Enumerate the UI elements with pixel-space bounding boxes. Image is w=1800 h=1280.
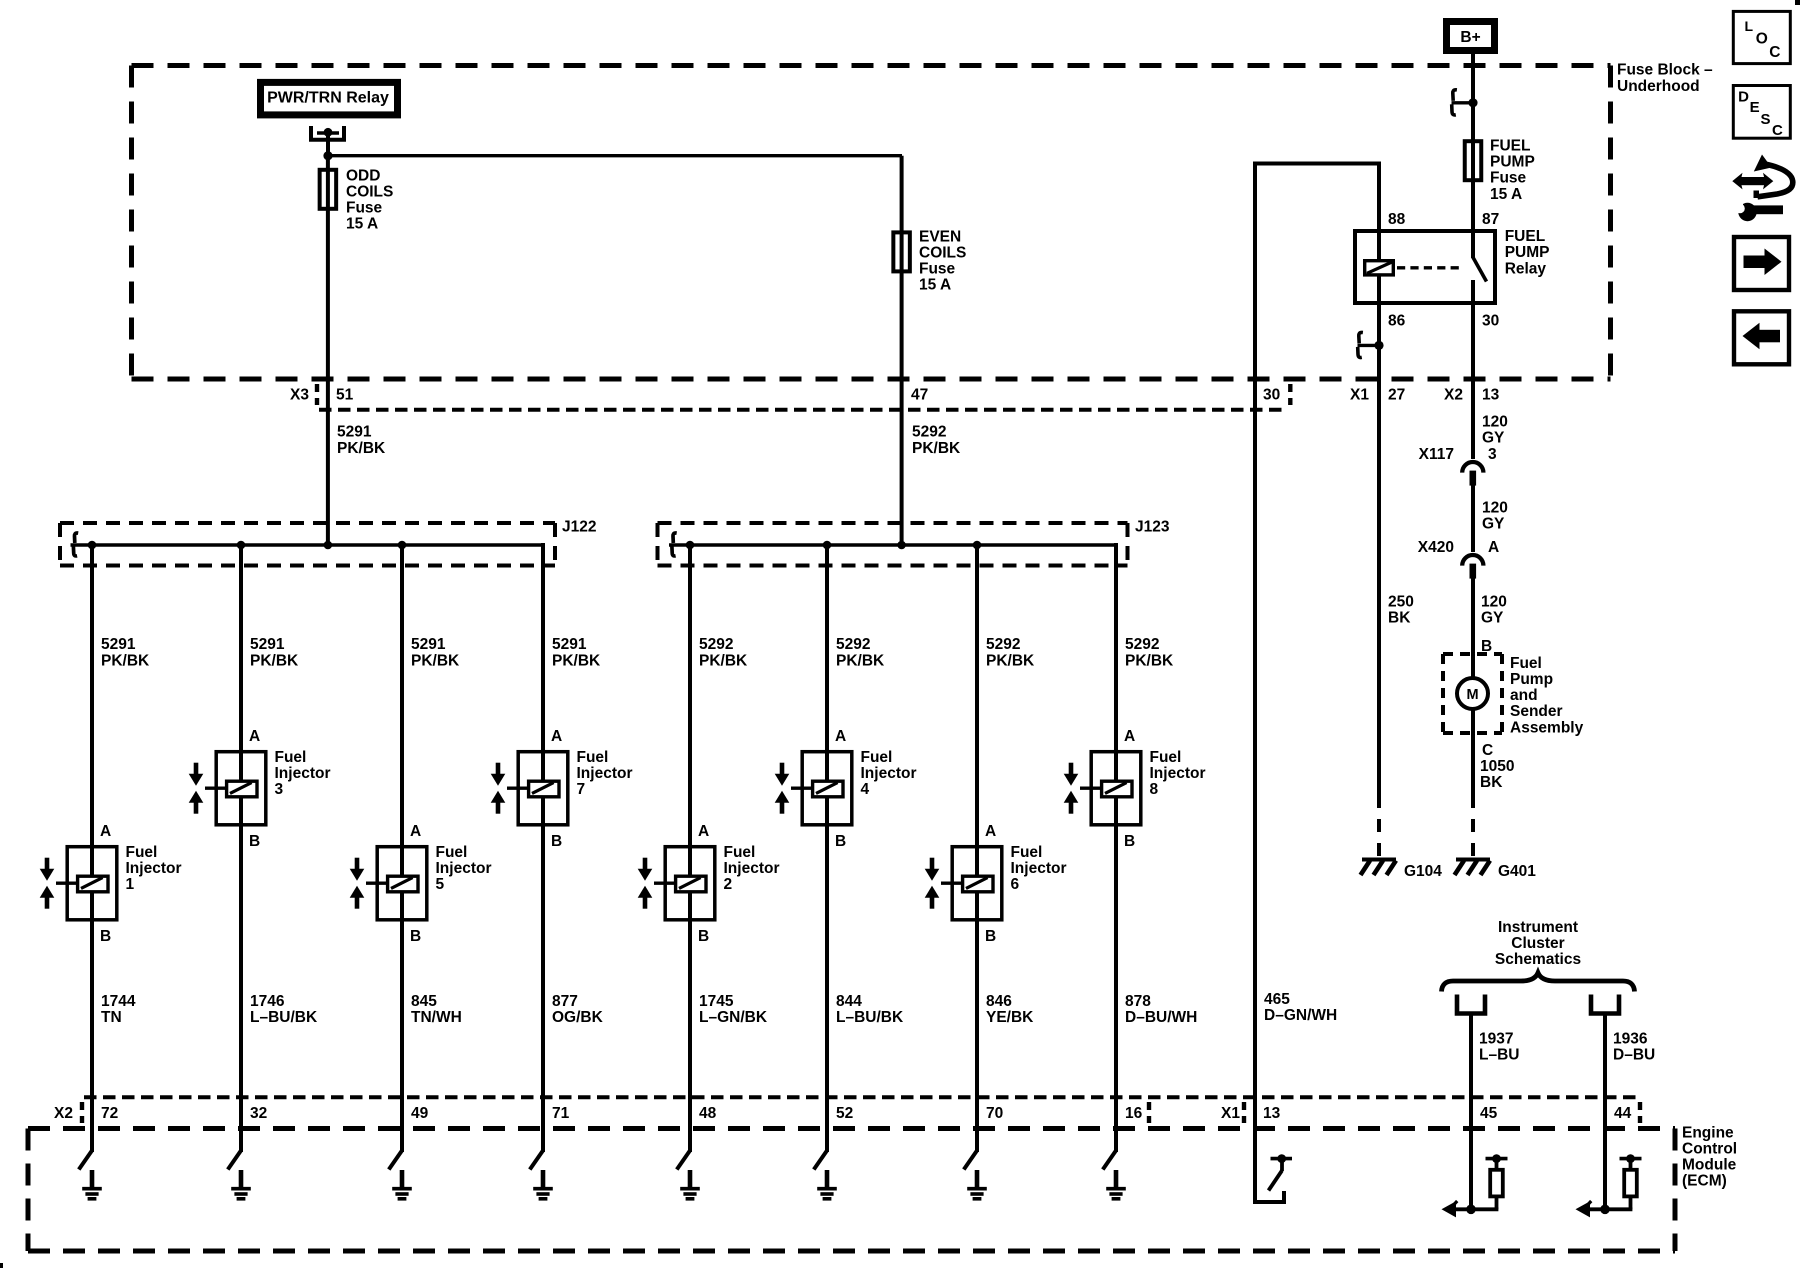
svg-text:X1: X1 [1221,1105,1240,1122]
svg-text:PK/BK: PK/BK [699,652,748,669]
EVEN COILS Fuse 15 A [893,228,966,293]
X2 tick [80,1102,84,1123]
svg-text:A: A [835,728,846,745]
svg-text:COILS: COILS [346,183,393,200]
ECM driver switch & ground pin 72 [79,1097,102,1199]
junction node [323,151,332,160]
svg-text:C: C [1769,44,1780,61]
svg-text:70: 70 [986,1105,1003,1122]
J123 junction dots [686,541,695,550]
svg-text:X3: X3 [290,386,309,403]
J122 bus end curl [73,533,78,556]
svg-text:A: A [698,823,709,840]
svg-text:B: B [1124,833,1135,850]
svg-text:5292: 5292 [986,636,1020,653]
svg-text:PUMP: PUMP [1505,244,1550,261]
svg-text:16: 16 [1125,1105,1143,1122]
svg-text:PK/BK: PK/BK [337,440,386,457]
svg-text:844: 844 [836,993,862,1010]
svg-text:Injector: Injector [126,860,182,877]
svg-text:D–GN/WH: D–GN/WH [1264,1007,1337,1024]
svg-text:B: B [698,928,709,945]
svg-text:5292: 5292 [912,424,946,441]
svg-text:A: A [1124,728,1135,745]
ECM driver switch & ground pin 48 [677,1097,700,1199]
wire 5291 PK/BK branch to injector 3 [239,543,243,1099]
svg-text:Fuel: Fuel [1150,749,1182,766]
svg-text:5292: 5292 [699,636,733,653]
svg-text:PK/BK: PK/BK [912,440,961,457]
wire 1936 D-BU [1603,1014,1607,1100]
fuel injector 2 [638,823,780,945]
inline connector X420 pin A [1462,555,1483,579]
svg-text:4: 4 [861,781,870,798]
ODD COILS Fuse 15 A [320,167,394,232]
inline connector X117 pin 3 [1462,462,1483,486]
svg-text:TN/WH: TN/WH [411,1009,462,1026]
svg-text:Pump: Pump [1510,671,1553,688]
wire 1937 L-BU [1469,1014,1473,1100]
svg-text:5291: 5291 [101,636,136,653]
svg-text:877: 877 [552,993,578,1010]
svg-text:X2: X2 [1444,386,1463,403]
FUEL PUMP Fuse 15 A [1465,138,1535,203]
wire 1050 BK to G401 [1471,733,1475,795]
icon LOC [1733,11,1790,63]
icon back arrow [1734,311,1789,364]
ground G104 [1361,860,1397,876]
svg-text:2: 2 [724,876,733,893]
svg-text:GY: GY [1482,516,1505,533]
svg-text:Injector: Injector [724,860,780,877]
wire 5292 PK/BK branch to injector 4 [825,543,829,1099]
svg-text:BK: BK [1480,774,1503,791]
tick after 30 [1288,384,1292,405]
svg-text:PK/BK: PK/BK [552,652,601,669]
svg-text:5291: 5291 [250,636,285,653]
fuel injector 8 [1064,728,1206,850]
svg-text:Fuel: Fuel [861,749,893,766]
fuel pump motor M [1457,678,1488,709]
svg-text:45: 45 [1480,1105,1498,1122]
svg-text:PUMP: PUMP [1490,154,1535,171]
svg-text:Fuel: Fuel [1011,844,1043,861]
battery positive B+ box [1447,22,1495,51]
wire: B+ to FUEL PUMP fuse [1471,54,1475,231]
svg-text:1744: 1744 [101,993,136,1010]
svg-text:Sender: Sender [1510,703,1563,720]
connector bracket under PWR/TRN Relay [311,126,344,140]
svg-text:D–BU: D–BU [1613,1047,1655,1064]
svg-text:ODD: ODD [346,167,380,184]
svg-text:L–BU: L–BU [1479,1047,1519,1064]
wire 5292 PK/BK branch to injector 8 [1114,543,1118,1099]
svg-text:Control: Control [1682,1141,1737,1158]
svg-text:Fuel: Fuel [126,844,158,861]
svg-text:Injector: Injector [861,765,917,782]
svg-text:L–BU/BK: L–BU/BK [250,1009,318,1026]
svg-text:465: 465 [1264,991,1290,1008]
svg-text:30: 30 [1263,386,1280,403]
svg-text:846: 846 [986,993,1012,1010]
svg-text:M: M [1466,687,1478,703]
svg-text:A: A [249,728,260,745]
svg-text:30: 30 [1482,313,1499,330]
svg-text:PK/BK: PK/BK [986,652,1035,669]
svg-text:Injector: Injector [1150,765,1206,782]
clip splice on B+ feed [1452,90,1478,115]
svg-text:1050: 1050 [1480,758,1514,775]
Engine Control Module dashed box [28,1129,1675,1252]
svg-text:PK/BK: PK/BK [836,652,885,669]
wire 5291 PK/BK branch to injector 1 [90,543,94,1099]
svg-text:OG/BK: OG/BK [552,1009,604,1026]
FUEL PUMP Relay [1355,164,1549,382]
svg-text:13: 13 [1482,386,1500,403]
svg-text:and: and [1510,687,1538,704]
J122 junction dots [88,541,97,550]
svg-text:5292: 5292 [1125,636,1159,653]
ECM pin 45 pull-up resistor and arrow [1442,1097,1508,1217]
wire 5291 PK/BK branch to injector 5 [400,543,404,1099]
svg-text:B: B [551,833,562,850]
svg-text:Fuel: Fuel [1510,655,1542,672]
svg-text:5291: 5291 [411,636,446,653]
svg-text:120: 120 [1481,594,1507,611]
svg-text:Relay: Relay [1505,260,1547,277]
svg-text:Assembly: Assembly [1510,719,1584,736]
connector X3 dotted line [319,408,1288,412]
ECM driver switch & ground pin 52 [814,1097,837,1199]
wire 120 GY segment 1 [1471,379,1475,459]
icon forward arrow [1734,237,1789,290]
label: Fuse Block - Underhood [1617,62,1713,95]
ground G401 [1455,860,1491,876]
svg-text:Injector: Injector [436,860,492,877]
svg-text:D: D [1738,89,1749,106]
svg-text:C: C [1482,742,1493,759]
svg-text:PK/BK: PK/BK [1125,652,1174,669]
svg-text:72: 72 [101,1105,118,1122]
svg-text:A: A [985,823,996,840]
svg-text:1937: 1937 [1479,1030,1513,1047]
svg-text:Fuel: Fuel [577,749,609,766]
svg-text:87: 87 [1482,211,1499,228]
svg-text:X2: X2 [54,1105,73,1122]
svg-text:1745: 1745 [699,993,734,1010]
EVEN COILS fuse drop wire [900,156,904,547]
svg-text:120: 120 [1482,413,1508,430]
svg-text:Schematics: Schematics [1495,951,1581,968]
ECM pin 44 pull-up resistor and arrow [1576,1097,1642,1217]
svg-text:X117: X117 [1419,446,1454,463]
J122 bus [71,543,546,547]
svg-text:Fuel: Fuel [724,844,756,861]
X1 tick [1242,1102,1246,1123]
svg-text:PK/BK: PK/BK [411,652,460,669]
svg-text:X1: X1 [1350,386,1369,403]
svg-text:A: A [551,728,562,745]
svg-text:FUEL: FUEL [1505,228,1545,245]
svg-text:250: 250 [1388,593,1414,610]
svg-text:Fuel: Fuel [275,749,307,766]
svg-text:51: 51 [336,386,354,403]
svg-text:PK/BK: PK/BK [250,652,299,669]
svg-text:Cluster: Cluster [1511,935,1564,952]
svg-text:BK: BK [1388,610,1411,627]
svg-text:EVEN: EVEN [919,228,961,245]
ECM connector dotted line X2/X1 [84,1095,1640,1099]
ECM driver switch & ground pin 70 [964,1097,987,1199]
svg-text:YE/BK: YE/BK [986,1009,1034,1026]
svg-text:A: A [1488,539,1499,556]
svg-text:S: S [1761,111,1771,128]
svg-text:15 A: 15 A [1490,186,1522,203]
ECM pin 13 driver switch [1255,1126,1292,1202]
ECM driver switch & ground pin 71 [530,1097,553,1199]
svg-text:B: B [410,928,421,945]
svg-text:27: 27 [1388,386,1405,403]
svg-text:TN: TN [101,1009,122,1026]
X3 tick [315,384,319,405]
fuel injector 7 [491,728,633,850]
clip splice below relay pin 86 [1358,332,1384,357]
svg-text:Module: Module [1682,1157,1737,1174]
svg-text:13: 13 [1263,1105,1281,1122]
wire: junction to EVEN COILS fuse [328,154,902,157]
junction block J122 dashed box [60,523,555,566]
tick after pin 44 [1638,1102,1642,1123]
svg-text:49: 49 [411,1105,429,1122]
svg-text:5: 5 [436,876,445,893]
Fuel Pump and Sender Assembly dashed box [1443,654,1502,733]
svg-text:Injector: Injector [275,765,331,782]
svg-text:6: 6 [1011,876,1020,893]
wire 120 GY segment 2 [1471,482,1475,552]
svg-text:Instrument: Instrument [1498,919,1578,936]
svg-text:Fuse Block –: Fuse Block – [1617,62,1713,79]
wire 120 GY segment 3 [1471,575,1475,679]
ECM driver switch & ground pin 32 [228,1097,251,1199]
svg-text:3: 3 [1488,446,1497,463]
svg-text:7: 7 [577,781,586,798]
svg-text:G104: G104 [1404,863,1442,880]
svg-text:48: 48 [699,1105,717,1122]
wire 250 BK to G104 [1377,379,1381,795]
svg-text:878: 878 [1125,993,1151,1010]
svg-text:PK/BK: PK/BK [101,652,150,669]
wire 5291 PK/BK: ODD fuse to J122 [326,158,330,547]
J123 bus [669,543,1118,547]
svg-text:GY: GY [1482,430,1505,447]
svg-text:J123: J123 [1135,518,1170,535]
svg-text:5292: 5292 [836,636,870,653]
fuel injector 5 [350,823,492,945]
fuel injector 6 [925,823,1067,945]
svg-text:Engine: Engine [1682,1124,1734,1141]
PWR/TRN Relay box [261,82,398,115]
svg-text:D–BU/WH: D–BU/WH [1125,1009,1197,1026]
fuel injector 1 [40,823,182,945]
svg-text:86: 86 [1388,313,1406,330]
svg-text:L: L [1745,18,1754,34]
svg-text:L–GN/BK: L–GN/BK [699,1009,768,1026]
brace over instrument cluster wires [1442,973,1635,992]
svg-text:B: B [100,928,111,945]
svg-text:1: 1 [126,876,135,893]
svg-text:15 A: 15 A [346,216,378,233]
svg-text:47: 47 [911,386,928,403]
page mark top-right [1795,0,1800,5]
wire: relay to junction [326,134,330,160]
svg-text:B: B [835,833,846,850]
svg-text:L–BU/BK: L–BU/BK [836,1009,904,1026]
svg-text:FUEL: FUEL [1490,138,1530,155]
svg-text:O: O [1756,31,1768,48]
ECM driver switch & ground pin 49 [389,1097,412,1199]
svg-text:Underhood: Underhood [1617,78,1700,95]
svg-text:X420: X420 [1418,539,1454,556]
svg-text:E: E [1750,99,1760,116]
wire 5292 PK/BK branch to injector 6 [975,543,979,1099]
fuel injector 3 [189,728,331,850]
junction block J123 dashed box [658,523,1128,566]
wire 5291 PK/BK branch to injector 7 [541,543,545,1099]
svg-text:PWR/TRN Relay: PWR/TRN Relay [267,90,389,107]
svg-text:C: C [1772,122,1783,139]
svg-text:G401: G401 [1498,863,1536,880]
svg-text:B: B [985,928,996,945]
page mark bottom-left [0,1263,3,1268]
svg-text:Fuse: Fuse [919,261,956,278]
svg-text:Injector: Injector [577,765,633,782]
svg-text:845: 845 [411,993,437,1010]
svg-text:A: A [100,823,111,840]
svg-text:J122: J122 [562,518,596,535]
instrument cluster connector U (pin 44 wire) [1591,995,1619,1014]
svg-text:8: 8 [1150,781,1159,798]
svg-text:B: B [249,833,260,850]
Fuse Block - Underhood dashed box [132,66,1611,380]
icon DESC [1733,86,1790,140]
tick after pin 16 [1147,1102,1151,1123]
svg-text:B+: B+ [1460,29,1480,46]
svg-text:GY: GY [1481,610,1504,627]
instrument cluster connector U (pin 45 wire) [1457,995,1485,1014]
svg-text:1936: 1936 [1613,1030,1648,1047]
svg-text:Fuse: Fuse [1490,170,1527,187]
svg-text:15 A: 15 A [919,277,951,294]
svg-text:3: 3 [275,781,284,798]
fuel injector 4 [775,728,917,850]
svg-text:5291: 5291 [552,636,587,653]
svg-text:5291: 5291 [337,424,372,441]
svg-text:88: 88 [1388,211,1406,228]
J123 bus end curl [672,533,677,556]
svg-text:COILS: COILS [919,244,966,261]
svg-text:71: 71 [552,1105,570,1122]
svg-text:52: 52 [836,1105,853,1122]
svg-text:Fuel: Fuel [436,844,468,861]
wire 5292 PK/BK branch to injector 2 [688,543,692,1099]
svg-text:Injector: Injector [1011,860,1067,877]
icon schematic navigation arrows [1732,155,1792,222]
svg-text:(ECM): (ECM) [1682,1173,1727,1190]
ECM driver switch & ground pin 16 [1103,1097,1126,1199]
svg-text:32: 32 [250,1105,267,1122]
svg-text:120: 120 [1482,499,1508,516]
svg-text:1746: 1746 [250,993,285,1010]
svg-text:44: 44 [1614,1105,1632,1122]
svg-text:Fuse: Fuse [346,200,383,217]
svg-text:A: A [410,823,421,840]
wire 465 D-GN/WH: relay pin 88 to ECM [1255,164,1379,1203]
wire: motor to C terminal [1471,709,1475,733]
